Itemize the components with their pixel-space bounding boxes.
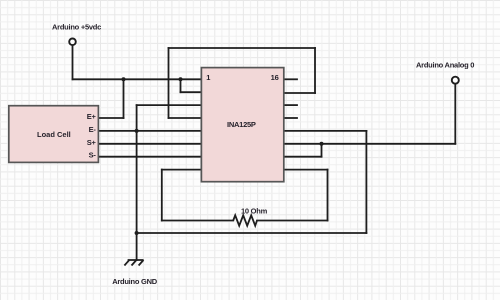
terminal Arduino Analog 0 [452,77,459,84]
node junction pin2 rail [179,77,183,81]
wire pin 10 riser [321,144,323,157]
wire resistor left drop [161,170,163,221]
wire E+ riser [123,79,125,118]
terminal Arduino +5vdc [69,39,76,46]
wire pin 9 stub [284,169,328,171]
wire pin 16 stub [284,78,298,80]
wire pin 12 horizontal [284,130,367,132]
wire E+ horizontal [98,117,123,119]
wire resistor left horizontal [162,220,233,222]
node junction E+ rail [122,77,126,81]
svg-text:E+: E+ [87,112,97,121]
wire pin 13 stub [284,117,298,119]
svg-text:S+: S+ [87,138,97,147]
ground [124,260,143,266]
wire pin 11 to analog [284,143,456,145]
node junction ground [135,231,139,235]
svg-text:Load Cell: Load Cell [37,130,71,139]
wire pin 10 stub [284,156,322,158]
wire pin 2 stub [181,91,202,93]
wire S- to pin 7 [98,156,201,158]
wire analog riser [454,84,456,144]
svg-text:Arduino Analog 0: Arduino Analog 0 [416,61,474,70]
wire pin 14 stub [284,104,298,106]
node junction E- pin5 [135,129,139,133]
svg-text:E-: E- [89,125,97,134]
svg-text:Arduino +5vdc: Arduino +5vdc [52,23,101,32]
wire pin 2 drop [180,79,182,92]
wire pin 4 stub [169,117,202,119]
wire pin 12 ground drop [365,131,367,233]
wire pin 15 stub [284,92,316,94]
resistor R1 10 Ohm [233,215,257,225]
wire +5vdc rail to pin 1 [73,78,202,80]
svg-text:S-: S- [89,151,97,160]
svg-text:INA125P: INA125P [227,120,256,129]
svg-text:1: 1 [206,73,210,82]
svg-text:Arduino GND: Arduino GND [112,277,158,286]
wire pin 4 riser [168,48,170,118]
wire resistor right riser [327,170,329,221]
load cell LC1 [9,106,99,163]
wire resistor right horizontal [257,220,328,222]
wire E- to pin 5 [98,130,201,132]
wire +5vdc vertical drop [72,45,74,79]
node junction analog pin10 [320,142,324,146]
wire S+ to pin 6 [98,143,201,145]
wire pin 3 horizontal [137,104,201,106]
op-amp U1 INA125P [201,68,283,182]
wire ground horizontal [137,232,367,234]
wire pin 8 stub [162,169,201,171]
svg-text:16: 16 [271,73,279,82]
svg-text:10 Ohm: 10 Ohm [241,207,268,216]
wire top loop horizontal [169,47,316,49]
wire ground vertical [136,105,138,260]
wire top loop drop [314,48,316,93]
